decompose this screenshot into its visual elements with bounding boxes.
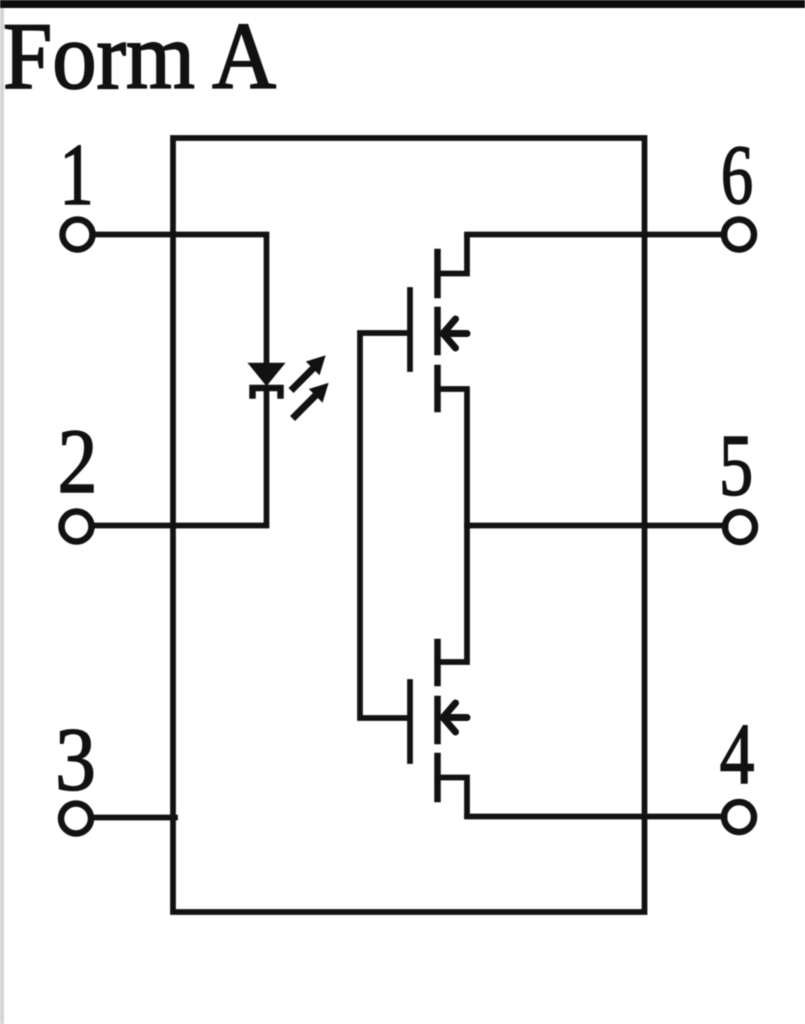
LED D1 triangle [249, 364, 284, 386]
svg-text:5: 5 [719, 418, 753, 515]
left table border [0, 8, 4, 1024]
Q2 body arrow [443, 703, 467, 732]
LED D1 cathode bar [253, 388, 281, 396]
Q2 source lead [440, 526, 467, 663]
Q1 channel bottom segment [434, 368, 441, 409]
wire pin1 to LED anode [95, 235, 267, 365]
pin 6 terminal circle [724, 220, 754, 250]
LED emission arrow 1 [294, 357, 325, 389]
Q2 drain lead [440, 778, 467, 816]
wire pin6 to upper MOSFET drain [467, 232, 725, 238]
gate bus wire [360, 333, 407, 718]
wire pin5 common source [467, 523, 726, 529]
MOSFET Q2 (lower) [410, 526, 467, 816]
Q1 channel middle segment [434, 310, 441, 352]
svg-text:Form A: Form A [3, 3, 276, 109]
Q1 gate bar [407, 290, 413, 369]
svg-text:4: 4 [720, 707, 755, 803]
wire pin3 to box edge [94, 815, 176, 821]
svg-text:1: 1 [59, 127, 93, 224]
svg-text:6: 6 [721, 129, 753, 222]
wire pin4 to lower MOSFET drain [467, 814, 725, 820]
Q2 gate bar [407, 682, 413, 761]
svg-text:3: 3 [55, 709, 96, 809]
Q2 channel top segment [434, 642, 441, 683]
Q1 body arrow [443, 319, 467, 348]
top border bar [0, 0, 805, 8]
svg-text:2: 2 [57, 410, 97, 512]
Q2 channel bottom segment [434, 756, 441, 799]
pin 4 terminal circle [724, 802, 754, 832]
pin 2 terminal circle [62, 512, 92, 542]
package outline box [173, 138, 645, 912]
pin 5 terminal circle [725, 512, 755, 542]
LED emission arrow 2 [295, 384, 328, 416]
Q1 drain lead [440, 237, 467, 274]
Q1 channel top segment [434, 252, 441, 295]
pin 3 terminal circle [61, 804, 91, 834]
Q1 source lead [440, 389, 467, 526]
wire pin2 to LED cathode [94, 389, 267, 526]
pin 1 terminal circle [63, 220, 93, 250]
MOSFET Q1 (upper) [410, 237, 467, 526]
Q2 channel middle segment [434, 699, 441, 741]
